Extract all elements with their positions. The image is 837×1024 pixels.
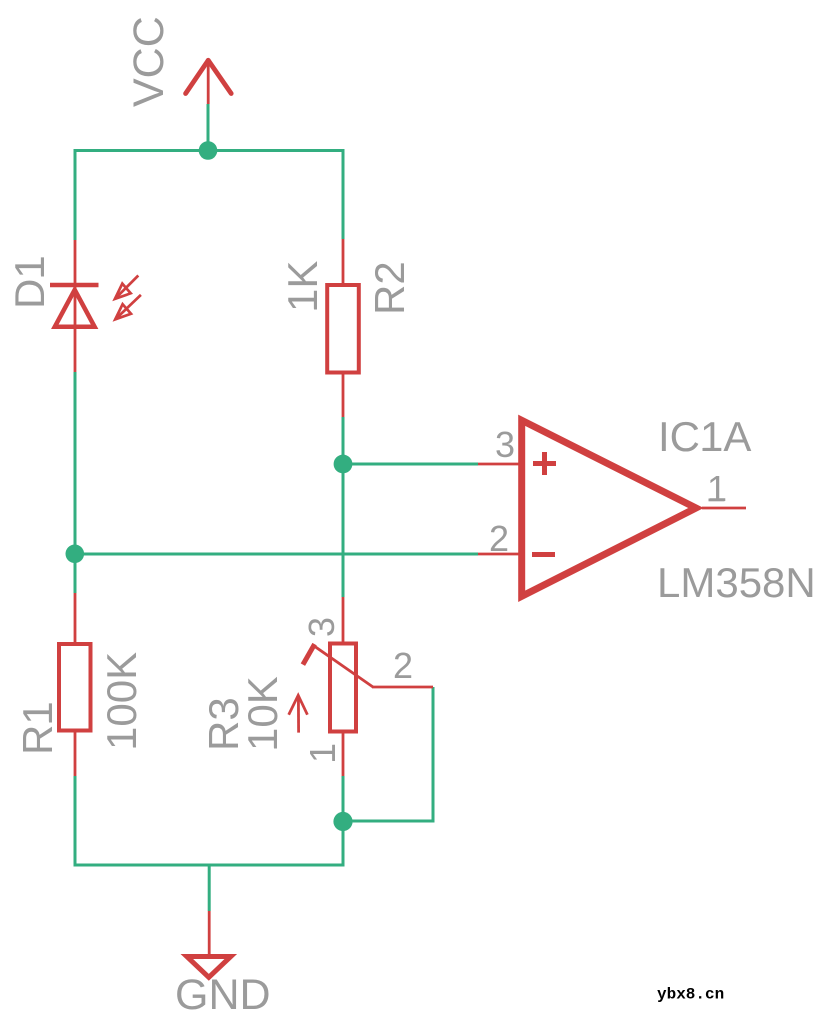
wire output pin1 red [702,507,746,510]
svg-text:IC1A: IC1A [658,413,751,460]
svg-text:2: 2 [489,518,509,559]
wire middle vertical upper (VCC to R2) [342,149,345,239]
label VCC [125,16,173,107]
label GND [175,971,271,1019]
wire bottom horizontal [74,864,344,867]
light arrow 1 [115,276,138,299]
pin label 1 of R3 [302,743,343,763]
svg-text:ybx8.cn: ybx8.cn [657,986,724,1004]
node junction wiper loop [333,812,352,831]
svg-text:GND: GND [175,971,271,1019]
node junction at VCC [199,141,218,160]
wire GND stem red [208,911,211,954]
pin label 2 of R3 [393,645,413,686]
svg-text:1K: 1K [279,261,326,312]
svg-text:1: 1 [707,468,727,509]
potentiometer R3 wiper diagonal [312,645,373,687]
label D1 [6,255,53,309]
wire GND stem green [208,864,211,911]
wire R2 pin top red [342,239,345,285]
ground GND symbol [187,957,231,978]
svg-text:R2: R2 [366,261,413,315]
wire left vertical lower (R1 to bottom) [74,776,77,867]
label LM358N [657,559,816,606]
svg-text:10K: 10K [239,676,286,751]
svg-text:2: 2 [393,645,413,686]
supply VCC arrow [186,60,209,93]
wire middle vertical (R2 node to R3) [342,417,345,597]
pin label 3 of R3 [301,617,342,637]
wire R3 pin3 red [342,597,345,643]
label IC1A [658,413,751,460]
wire pin3 net horizontal [343,463,478,466]
light arrow 2 [115,295,141,320]
wire R3 pin2 horizontal red [372,686,433,689]
label 10K [239,676,286,751]
photodiode D1 triangle [55,290,95,327]
svg-text:100K: 100K [98,652,145,750]
wire top horizontal net VCC [74,149,345,152]
wire pin2 net horizontal [75,553,478,556]
svg-text:3: 3 [495,424,515,465]
pin label 3 of op-amp [495,424,515,465]
op-amp IC1A triangle [522,420,696,596]
op-amp plus sign [533,452,556,475]
wire R3 pin1 red [342,732,345,776]
wire VCC stem red [207,60,210,104]
wire VCC stem green [207,104,210,151]
label R1 [14,701,61,755]
svg-text:3: 3 [301,617,342,637]
label 1K [279,261,326,312]
resistor R1 body [59,644,91,731]
photodiode D1 cathode bar [50,283,99,288]
wire D1 pins red [74,240,77,372]
potentiometer R3 adjust arrow [289,695,308,732]
svg-text:VCC: VCC [125,16,173,107]
node junction R2/pin3 [334,455,353,474]
svg-text:1: 1 [302,743,343,763]
op-amp IC1A input stub pin3 red [478,463,521,466]
pin label 2 of op-amp [489,518,509,559]
pin label 1 of op-amp [707,468,727,509]
svg-text:R1: R1 [14,701,61,755]
wire wiper loop horizontal [343,820,435,823]
label R2 [366,261,413,315]
potentiometer R3 wiper tail bar [303,644,315,665]
label R3 [200,697,247,751]
potentiometer R3 body [330,644,356,732]
svg-text:D1: D1 [6,255,53,309]
wire R3 bottom vertical [342,776,345,867]
op-amp minus sign [532,552,555,557]
wire left vertical middle (D1 to R1) [74,372,77,593]
resistor R2 body [327,285,359,373]
op-amp IC1A input stub pin2 red [478,553,521,556]
wire left vertical upper (VCC to D1) [74,149,77,240]
wire R2 pin bottom red [342,373,345,417]
node junction left/pin2 [66,545,85,564]
wire R1 pin bottom red [74,732,77,776]
svg-text:LM358N: LM358N [657,559,816,606]
wire wiper loop vertical [432,687,435,823]
wire R1 pin top red [74,593,77,642]
label 100K [98,652,145,750]
